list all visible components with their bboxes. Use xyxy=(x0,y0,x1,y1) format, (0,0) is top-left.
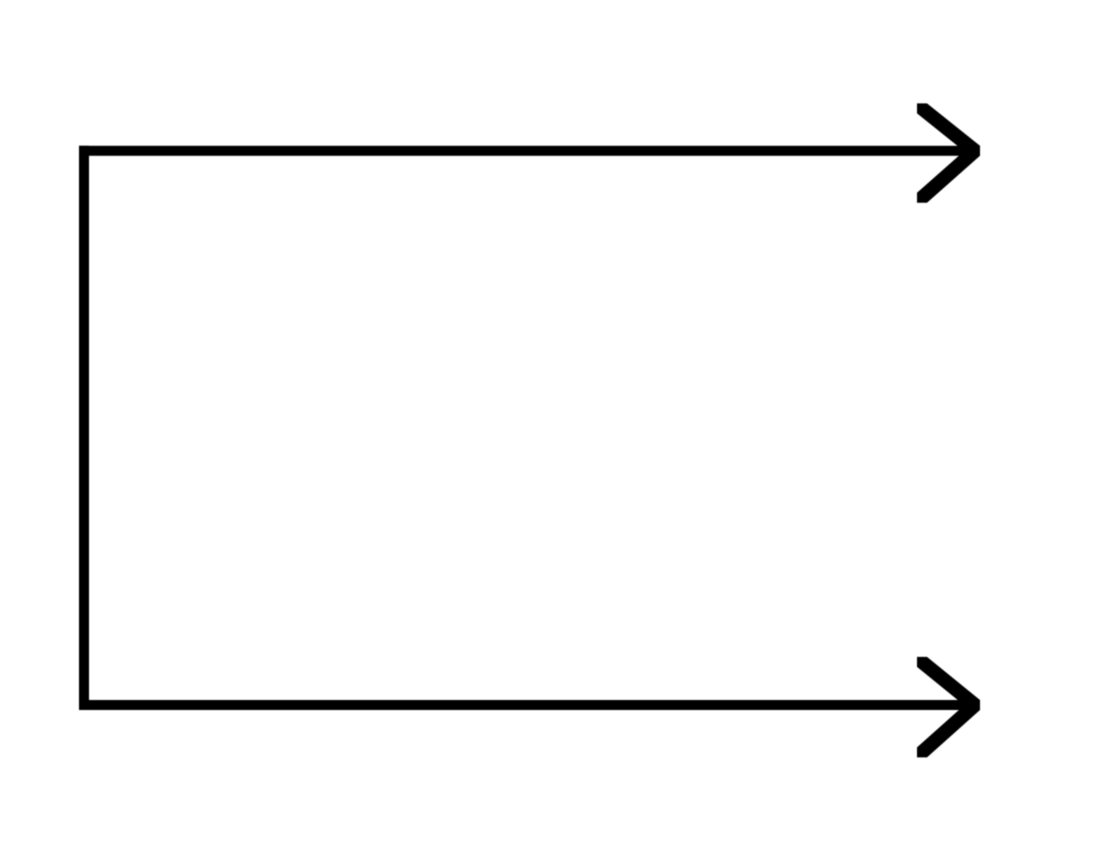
wire: left vertical segment xyxy=(79,146,89,710)
wire: bottom horizontal segment xyxy=(79,700,980,710)
wire: top horizontal segment xyxy=(79,146,980,156)
arrowhead: top arrow chevron xyxy=(917,103,980,202)
arrowhead: bottom arrow chevron xyxy=(917,657,980,758)
